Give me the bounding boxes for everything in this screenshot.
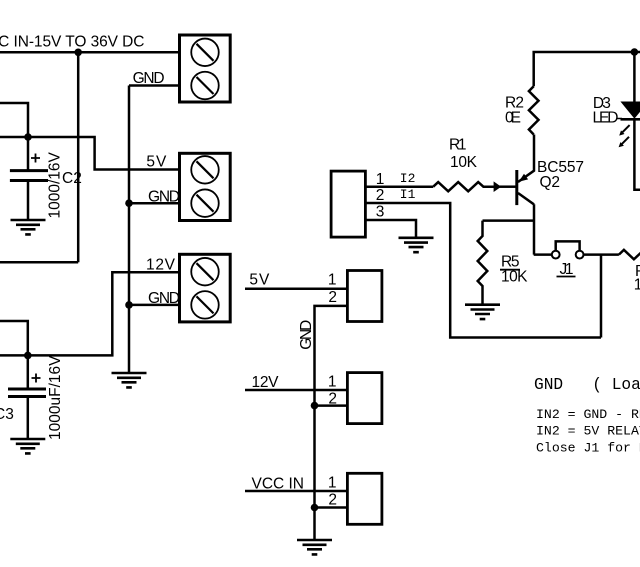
wire JP1 pin2 to GND column <box>315 306 348 540</box>
resistor R4 (clipped at edge) <box>619 250 640 259</box>
connector SV1 (3-pin) <box>331 171 365 237</box>
wire C3 top feed from left edge <box>0 321 28 355</box>
svg-text:GND ( Load ONLY: GND ( Load ONLY <box>534 376 640 394</box>
resistor R1 <box>433 182 494 191</box>
svg-text:1000/16V: 1000/16V <box>47 151 64 218</box>
node top-right junction <box>631 48 639 56</box>
svg-text:1: 1 <box>328 373 337 390</box>
wire VCC IN to header JP3 pin1 <box>245 490 347 493</box>
capacitor C2 <box>10 171 48 220</box>
wire D3 cathode lead <box>634 119 640 190</box>
header JP2 <box>347 373 382 424</box>
wire arrow to base <box>500 185 516 188</box>
terminal block X1 <box>180 35 231 102</box>
ground GND rail <box>112 373 147 387</box>
wire JP2 pin2 <box>315 404 348 407</box>
svg-text:IN2 = GND - RELAY ON: IN2 = GND - RELAY ON <box>536 407 640 422</box>
svg-text:I2: I2 <box>400 171 416 186</box>
svg-text:10K: 10K <box>501 268 528 285</box>
wire 5V feed to terminal block 2 <box>0 137 180 170</box>
svg-text:10K: 10K <box>634 277 640 294</box>
svg-text:GND: GND <box>148 189 180 206</box>
wire J1 down to I1 net <box>600 255 603 338</box>
svg-text:2: 2 <box>328 492 337 509</box>
wire GND terminal block 2 <box>129 202 180 205</box>
svg-text:GND: GND <box>298 320 315 350</box>
svg-text:R1: R1 <box>449 137 467 154</box>
header JP1 <box>347 271 382 322</box>
wire VIN vertical drop <box>77 52 80 262</box>
jumper J1 <box>534 241 619 258</box>
ground below C3 <box>10 439 45 453</box>
wire VIN top rail <box>0 51 180 54</box>
svg-text:J1: J1 <box>560 261 574 278</box>
collector lead <box>518 193 534 255</box>
resistor R2 <box>529 52 640 135</box>
emitter lead <box>518 135 534 183</box>
wire GND terminal block 1 <box>129 84 180 87</box>
svg-text:1: 1 <box>328 272 337 289</box>
arrow into Q2 base <box>494 181 502 192</box>
svg-text:5V: 5V <box>249 272 270 289</box>
svg-text:0E: 0E <box>505 110 521 127</box>
wire LED label tick <box>617 118 622 120</box>
node VIN junction <box>74 49 82 57</box>
wire J1 to R4 <box>584 253 619 256</box>
node C3/12V junction <box>24 352 32 360</box>
svg-text:DC IN-15V TO 36V DC: DC IN-15V TO 36V DC <box>0 33 145 50</box>
wire C2 top feed from left edge <box>0 103 28 171</box>
svg-text:3: 3 <box>376 204 385 221</box>
svg-text:1000uF/16V: 1000uF/16V <box>47 355 64 440</box>
wire C3 lead down <box>27 355 30 389</box>
transistor Q2 BC557 <box>517 135 534 255</box>
ground below SV1 pin3 <box>399 238 434 252</box>
svg-text:GND: GND <box>148 290 180 307</box>
wire collector to J1 <box>534 253 552 256</box>
svg-text:2: 2 <box>328 289 337 306</box>
emitter arrow <box>519 174 528 182</box>
jumper link bracket <box>556 241 580 250</box>
wire GND rail vertical <box>128 86 131 374</box>
polarity + C2 <box>31 154 40 163</box>
header JP3 <box>347 473 382 524</box>
wire 5V to header JP1 pin1 <box>245 288 347 291</box>
svg-text:5V: 5V <box>146 154 167 171</box>
ground below R5 <box>465 305 500 319</box>
resistor R5 <box>478 221 488 305</box>
node GND junction at JP3 <box>311 504 319 512</box>
wire 12V feed to terminal block 3 <box>0 272 180 355</box>
svg-text:12V: 12V <box>146 257 176 274</box>
ground below C2 <box>11 220 46 234</box>
wire GND terminal block 3 <box>129 304 180 307</box>
svg-text:Close J1 for Relay: Close J1 for Relay <box>536 440 640 455</box>
base bar <box>515 170 518 205</box>
svg-text:Q2: Q2 <box>540 174 561 191</box>
LED triangle <box>622 102 640 117</box>
svg-text:10K: 10K <box>450 154 478 171</box>
LED emission arrow 2 <box>622 137 629 144</box>
terminal block X3 <box>180 254 231 322</box>
svg-text:12V: 12V <box>252 374 280 391</box>
polarity + C3 <box>32 374 41 383</box>
svg-text:C3: C3 <box>0 406 14 423</box>
wire R2 top lead <box>534 52 640 86</box>
svg-text:C2: C2 <box>62 170 82 187</box>
wire collector to R5 tap <box>483 219 534 222</box>
node C2/5V junction <box>24 133 32 141</box>
LED cathode bar <box>621 118 640 121</box>
node GND junction at JP2 <box>311 402 319 410</box>
wire SV1 pin1 to R1 <box>365 185 433 188</box>
node GND junction at block2 <box>125 199 133 207</box>
svg-text:I1: I1 <box>400 187 416 202</box>
svg-text:GND: GND <box>133 70 165 87</box>
wire JP3 pin2 <box>315 506 348 509</box>
LED D3 <box>619 52 640 190</box>
wire SV1 pin2 I1 net <box>365 203 601 338</box>
svg-text:IN2 = 5V RELAY OFF: IN2 = 5V RELAY OFF <box>536 424 640 439</box>
node GND junction at block3 <box>125 301 133 309</box>
capacitor C3 <box>8 389 46 439</box>
LED emission arrow 1 <box>623 125 630 132</box>
wire 12V to header JP2 pin1 <box>245 389 347 392</box>
ground below GND column <box>297 540 332 554</box>
svg-text:1: 1 <box>328 475 337 492</box>
wire D3 anode lead <box>633 52 636 102</box>
terminal block X2 <box>180 153 231 220</box>
svg-text:2: 2 <box>376 187 385 204</box>
wire VIN bottom feed to left edge <box>0 261 78 264</box>
wire SV1 pin3 to ground <box>365 220 416 238</box>
svg-text:LED: LED <box>593 110 619 127</box>
